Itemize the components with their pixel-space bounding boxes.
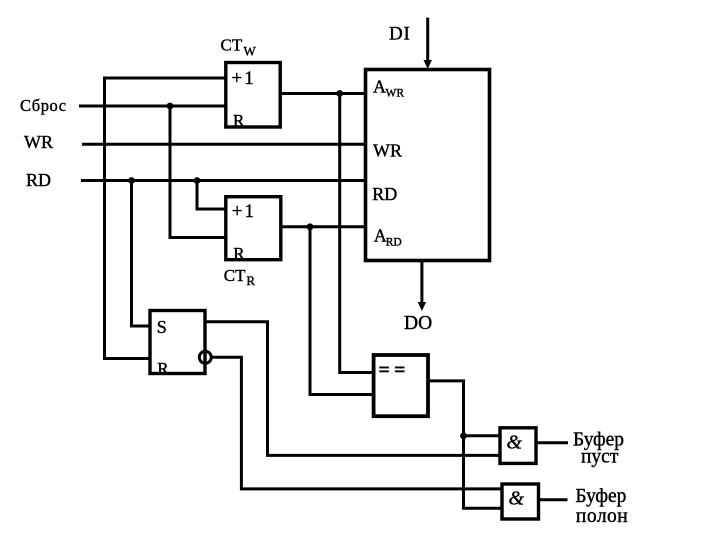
- svg-text:пуст: пуст: [581, 447, 619, 468]
- wire: CT_R output to memory A_RD: [281, 225, 367, 228]
- svg-text:DI: DI: [389, 24, 411, 45]
- wire: CT_W +1 input from vertical, down to RS trigger R input: [105, 78, 228, 359]
- wire: gate 2 output: [539, 498, 568, 501]
- memory block U1: [366, 70, 490, 261]
- wire: DI input arrow: [426, 18, 429, 62]
- wire: branch to upper AND gate upper input: [464, 434, 502, 437]
- label = = inside comparator: [379, 367, 389, 369]
- svg-text:CT: CT: [221, 36, 243, 55]
- wire: Сброс horizontal into CT_W R input: [79, 105, 227, 108]
- wire: RD branch down to CT_R +1 input: [197, 181, 227, 210]
- wire: CT_W output to memory A_WR: [280, 92, 367, 95]
- node: junction on comparator output vertical: [460, 432, 467, 439]
- svg-text:A: A: [373, 77, 386, 97]
- wire: from CT_W output junction down to comparator upper input: [340, 94, 375, 373]
- svg-text:&: &: [507, 432, 523, 454]
- svg-text:R: R: [246, 273, 255, 288]
- svg-text:Сброс: Сброс: [20, 96, 67, 115]
- AND gate 2 (buffer full): [502, 484, 539, 519]
- svg-text:RD: RD: [372, 184, 397, 204]
- node: junction on RD line (branch to CT_R +1): [194, 177, 201, 184]
- svg-text:WR: WR: [24, 132, 53, 152]
- inversion bubble on RS output: [199, 351, 211, 363]
- comparator ==: [374, 355, 428, 416]
- svg-text:W: W: [244, 44, 257, 59]
- wire: DO output arrow: [420, 262, 423, 303]
- svg-text:S: S: [157, 317, 167, 337]
- svg-text:RD: RD: [386, 237, 402, 249]
- svg-text:R: R: [233, 111, 245, 130]
- counter CT_R: [226, 197, 281, 260]
- svg-text:&: &: [509, 488, 525, 510]
- wire: RS direct output to lower input of upper AND gate: [205, 322, 501, 456]
- svg-text:полон: полон: [576, 506, 628, 527]
- svg-text:WR: WR: [386, 88, 405, 100]
- svg-text:CT: CT: [224, 266, 246, 285]
- wire: RD branch down to RS trigger S input: [132, 181, 152, 327]
- wire: gate 1 output: [536, 441, 568, 444]
- svg-text:+1: +1: [232, 68, 256, 89]
- counter CT_W: [226, 63, 280, 128]
- svg-text:R: R: [157, 359, 169, 378]
- node: junction on CT_W output: [336, 90, 343, 97]
- wire: RS inverted output to upper input of lower AND gate: [211, 357, 503, 489]
- svg-text:Буфер: Буфер: [575, 486, 626, 507]
- svg-text:R: R: [233, 244, 245, 263]
- wire: RD horizontal to memory block: [81, 179, 367, 182]
- RS trigger: [150, 311, 205, 374]
- AND gate 1 (buffer empty): [500, 428, 536, 464]
- node: junction on CT_R output: [307, 223, 314, 230]
- svg-text:+1: +1: [232, 201, 256, 222]
- node: junction on Сброс line: [167, 103, 174, 110]
- wire: comparator output down to lower AND gate lower input: [428, 381, 503, 508]
- svg-text:RD: RD: [26, 170, 51, 190]
- wire: WR horizontal to memory block: [82, 143, 367, 146]
- svg-text:WR: WR: [373, 140, 402, 160]
- wire: from Сброс junction down to CT_R R input: [170, 106, 227, 238]
- node: junction on RD line (branch to S input): [128, 177, 135, 184]
- svg-text:DO: DO: [404, 313, 432, 334]
- wire: from CT_R output junction down to comparator lower input: [310, 227, 375, 395]
